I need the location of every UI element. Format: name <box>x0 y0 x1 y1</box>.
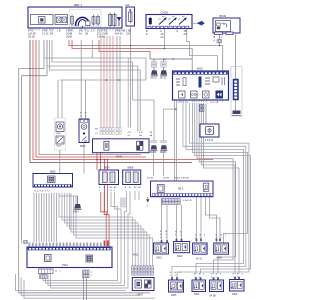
svg-text:8406: 8406 <box>194 293 200 296</box>
radio pin number row <box>174 102 219 104</box>
rear speaker S1b pin labels <box>175 231 182 237</box>
amplifier K 8403 <box>132 278 154 291</box>
CA00 bottom pin row <box>148 26 189 28</box>
MC12 splice <box>160 62 167 76</box>
svg-text:1 4 6 2 8 3 5 9 7 2: 1 4 6 2 8 3 5 9 7 2 <box>34 191 51 193</box>
wire maroon bus 1 <box>30 40 192 163</box>
wire parallel drop from y48.5 bus to connector above 6606 <box>127 58 129 128</box>
labels on 8080 pins <box>80 112 87 118</box>
svg-text:10A: 10A <box>126 33 131 36</box>
fuse F2 inside BB1 <box>92 17 95 25</box>
wire left dark vertical 2 from BB1 pin to PSF1 left pin <box>22 40 47 241</box>
heater unit 8807 <box>99 170 119 185</box>
svg-text:16AB: 16AB <box>66 36 72 39</box>
svg-text:MC12: MC12 <box>160 76 167 79</box>
wire extra staircase lines to K feeds <box>74 196 153 268</box>
small box inside BB1 <box>86 21 91 26</box>
radio unit 8602 <box>173 71 229 100</box>
wire junction dots <box>96 159 108 161</box>
wire radio pin to L speaker right pin <box>177 103 249 278</box>
wire fuse box B drop continuing to connector above 6606 <box>129 26 131 128</box>
speaker L top labels <box>170 271 182 277</box>
svg-text:1 2 3 4 5 6 7 8: 1 2 3 4 5 6 7 8 <box>174 102 189 104</box>
wire BF00 drop 1 <box>219 35 221 46</box>
svg-text:1 9 1 8: 1 9 1 8 <box>205 138 214 142</box>
svg-text:BB1 1: BB1 1 <box>74 3 83 7</box>
wire MA splice drop <box>77 196 79 204</box>
pin ticks under radio <box>175 100 223 102</box>
wire drops to dashed box 8415 <box>58 80 62 118</box>
svg-text:MA 4: MA 4 <box>74 211 80 214</box>
arrow terminal on 0B-3 left pin <box>147 197 149 199</box>
wire gray horiz y58 to MC splice pair 2 feed <box>44 42 146 80</box>
svg-text:4 B02 42: 4 B02 42 <box>183 200 193 202</box>
pin labels under BF00 <box>214 36 224 43</box>
pin labels under 8807 <box>99 186 142 192</box>
ignition switch CA00 <box>146 15 192 29</box>
wire gray pair to connector row above 6606 <box>117 36 120 127</box>
wire MC pair2 stubs <box>154 151 164 176</box>
MC splice pair 2 left <box>150 141 157 151</box>
radio top pin strip <box>173 72 227 75</box>
fuse pair right inside BB1 <box>109 15 112 26</box>
speaker bottom designator labels <box>138 293 238 298</box>
pin labels above 0B-3 <box>147 177 189 180</box>
connector tick rows above 6606 <box>100 127 121 134</box>
svg-text:8080: 8080 <box>80 145 86 148</box>
arrow to CA00 from right <box>192 21 204 26</box>
svg-text:8422: 8422 <box>177 255 183 258</box>
relay box 6606 <box>93 139 150 153</box>
wire red staircase pair to PSF1 pins <box>101 192 109 247</box>
wire dashed box 8415 bottom to N1 <box>59 150 61 174</box>
BSI PSF1 <box>27 247 112 268</box>
radio icon cd <box>203 91 210 98</box>
svg-text:CA00: CA00 <box>161 11 169 15</box>
radio icon speaker <box>179 91 186 98</box>
wire staircase C-loops from 8807/8808 pins around to PSF1 bottom block <box>43 192 118 281</box>
PSF1 top left connector <box>21 241 28 245</box>
svg-text:MC30: MC30 <box>150 151 157 154</box>
wire 8080 bottom to N1 <box>83 143 85 174</box>
svg-text:8421: 8421 <box>133 254 139 257</box>
pin labels under BB1 left group <box>28 30 126 39</box>
svg-text:4A: 4A <box>79 33 82 36</box>
svg-text:84 12: 84 12 <box>196 258 203 261</box>
svg-text:1C A2: 1C A2 <box>42 33 49 36</box>
svg-text:6606: 6606 <box>116 154 123 158</box>
rear speaker S2 pin labels <box>195 234 206 240</box>
wire 0B-3 right pins to S2 rear speaker <box>197 197 202 243</box>
MA ground splice <box>74 204 82 209</box>
wire radio pin to 1918 box <box>205 104 207 125</box>
wire CA00 drop 1 <box>164 29 166 49</box>
svg-text:12A 4G: 12A 4G <box>97 36 105 39</box>
svg-text:0B 3: 0B 3 <box>178 187 184 191</box>
wire radio pin drops to nested corner bundle feeding right speakers <box>186 103 244 274</box>
pin labels under CA00 <box>146 30 187 39</box>
svg-text:8405: 8405 <box>171 294 177 297</box>
wire staircase from N1 pins east to K connector feeds <box>59 193 132 268</box>
wire red bus 2 (long red line mid) <box>33 40 213 160</box>
speaker M2 <box>210 280 224 292</box>
radio icon rewind dark <box>216 91 224 99</box>
wire red horiz top y45.5 from BB1 pin to radio pin <box>69 40 165 46</box>
wire gray horiz y66 <box>47 40 138 131</box>
PSF1 below connector block <box>39 269 90 279</box>
K connector row above amplifier <box>131 266 153 276</box>
svg-text:8408: 8408 <box>232 293 238 296</box>
connector stack pair left of staircase <box>121 198 127 207</box>
svg-text:2B 1B: 2B 1B <box>28 36 35 39</box>
rear speaker S1b <box>174 242 190 253</box>
speaker M1 top labels <box>194 273 205 279</box>
rear speaker S1 pin labels <box>160 230 168 239</box>
wire gray horiz y70 <box>50 40 141 131</box>
pin ticks under BB1 <box>30 28 120 31</box>
radio icon tape <box>191 91 198 98</box>
wire CA00 drop 2 to radio <box>187 29 218 72</box>
svg-text:8410: 8410 <box>157 257 163 260</box>
svg-text:R A 4 2 B8 4B: R A 4 2 B8 4B <box>175 177 189 180</box>
svg-text:2B: 2B <box>85 33 88 36</box>
wire 6606 pins drop red with junctions <box>97 153 101 170</box>
MC splice pair 2 right <box>160 141 167 151</box>
wire N1 pin east to MA splice <box>59 193 78 196</box>
wire left dark vertical 1 from BB1 pin to bottom left loop <box>19 40 150 293</box>
svg-text:12 14 16: 12 14 16 <box>210 102 219 104</box>
speaker pin connector ticks <box>161 239 240 280</box>
heater unit right 8808 <box>123 170 141 185</box>
PSF1 bottom pin labels <box>55 271 93 278</box>
fuse box B <box>126 7 135 26</box>
antenna assembly <box>231 67 242 117</box>
hatch connector under BF00 <box>217 40 222 44</box>
switch contact 2 <box>169 18 176 25</box>
rear speaker S2 <box>193 243 208 254</box>
rear speaker designator labels <box>133 254 222 261</box>
wire 0B-3 pins east to S3 rear speaker <box>206 197 221 243</box>
wire gray horiz y80 feeder <box>60 79 146 81</box>
hatched connector under radio <box>200 105 205 112</box>
antenna amplifier BF00 <box>213 18 240 35</box>
switch contact 1 <box>159 18 166 25</box>
svg-text:1 B: 1 B <box>57 30 61 33</box>
svg-text:MC10: MC10 <box>151 76 158 79</box>
wire PSF1 bottom verticals to page bottom <box>84 278 87 300</box>
wire BB1 pin drop to y58 bus <box>91 40 93 58</box>
PSF1 labels top pins <box>29 243 102 246</box>
wire maroon horiz y51.5 <box>99 40 150 59</box>
horn dome symbol inside BB1 <box>76 17 90 26</box>
svg-text:8415: 8415 <box>57 146 63 148</box>
wire 0B-3 hatch drops to S1 rear speaker pins <box>162 205 168 243</box>
fuse F1 inside BB1 <box>71 17 74 25</box>
svg-text:8B00: 8B00 <box>50 171 56 174</box>
wire N3 spare pin stubs <box>135 191 139 200</box>
wire red pair from junctions down to staircase <box>105 160 108 215</box>
wire 0B-3 hatch drops to S1b rear speaker pins <box>177 205 182 242</box>
svg-text:40A 3A: 40A 3A <box>115 33 123 36</box>
svg-text:1B 2B: 1B 2B <box>163 178 169 180</box>
svg-text:8807: 8807 <box>104 166 110 170</box>
rear speaker S3 <box>214 243 229 254</box>
wire bottom edge lines from left <box>16 274 127 291</box>
wire pink bundle from BB1 pins to connector row above 6606 <box>101 36 113 127</box>
wire red bus 3 <box>36 40 146 157</box>
wire MC10 splice drop <box>153 59 155 70</box>
rear speaker S3 pin labels <box>216 234 228 240</box>
radio internal glyphs <box>176 79 180 85</box>
diode arrow inside BB1 <box>117 17 121 22</box>
svg-text:8403: 8403 <box>138 294 144 297</box>
speaker M3 top labels <box>233 273 244 279</box>
svg-text:84 0B: 84 0B <box>210 295 217 298</box>
svg-text:5 V: 5 V <box>91 30 95 33</box>
svg-text:MC33: MC33 <box>160 151 167 154</box>
speaker L 8405 <box>169 280 184 292</box>
wire radio pins to 0B-3 box <box>175 103 177 181</box>
svg-text:8480: 8480 <box>217 257 223 260</box>
wire drops to box 8080 pins <box>81 40 85 119</box>
speaker M1 <box>192 280 206 292</box>
svg-text:PSF1: PSF1 <box>62 264 69 267</box>
rear speaker S1 <box>154 243 169 254</box>
MC10 splice <box>151 62 158 76</box>
wire N1 pins down to PSF1 top pins <box>34 193 57 242</box>
fuse box BB1 <box>28 7 122 28</box>
control unit N1 8B00 <box>33 174 73 188</box>
svg-text:1C: 1C <box>95 133 98 135</box>
antenna ground base <box>233 111 241 115</box>
wire gray horiz y62 feeding MC splice pair 2 left <box>52 40 154 141</box>
switch contact 3 <box>179 18 186 25</box>
pin labels under N1 <box>34 191 51 193</box>
wire red horiz top y48.5 from BB1 pin to radio pin <box>72 40 165 49</box>
wire dark bus y59 MC splices <box>150 58 192 60</box>
blower switch 8080 <box>79 119 89 143</box>
svg-text:8602: 8602 <box>197 67 203 71</box>
speaker M3 <box>230 280 245 292</box>
connector 1918 box <box>200 124 219 137</box>
svg-text:8808: 8808 <box>128 166 134 170</box>
svg-text:4 B: 4 B <box>139 132 143 134</box>
display unit 0B-3 <box>151 181 214 197</box>
connector row labels above 6606 <box>95 129 153 138</box>
svg-text:F15: F15 <box>125 3 130 7</box>
wire radio pin down right edge to M1 speaker <box>172 103 246 278</box>
fuse F3 inside BB1 <box>97 17 100 25</box>
hatched connector under 0B-3 <box>161 199 180 205</box>
dashed group 8415 <box>55 118 66 150</box>
wire BF00 drop 2 to antenna <box>235 35 237 79</box>
wire MC12 splice drop <box>163 59 165 70</box>
svg-text:BF00: BF00 <box>220 14 227 18</box>
svg-text:4B 2B: 4B 2B <box>147 178 153 180</box>
wire radio pin branch to MC splice pair 2 right <box>164 109 176 140</box>
speaker M2 top labels <box>211 273 222 279</box>
wire gray bus 4 <box>39 40 141 155</box>
svg-text:4 B: 4 B <box>128 132 132 134</box>
